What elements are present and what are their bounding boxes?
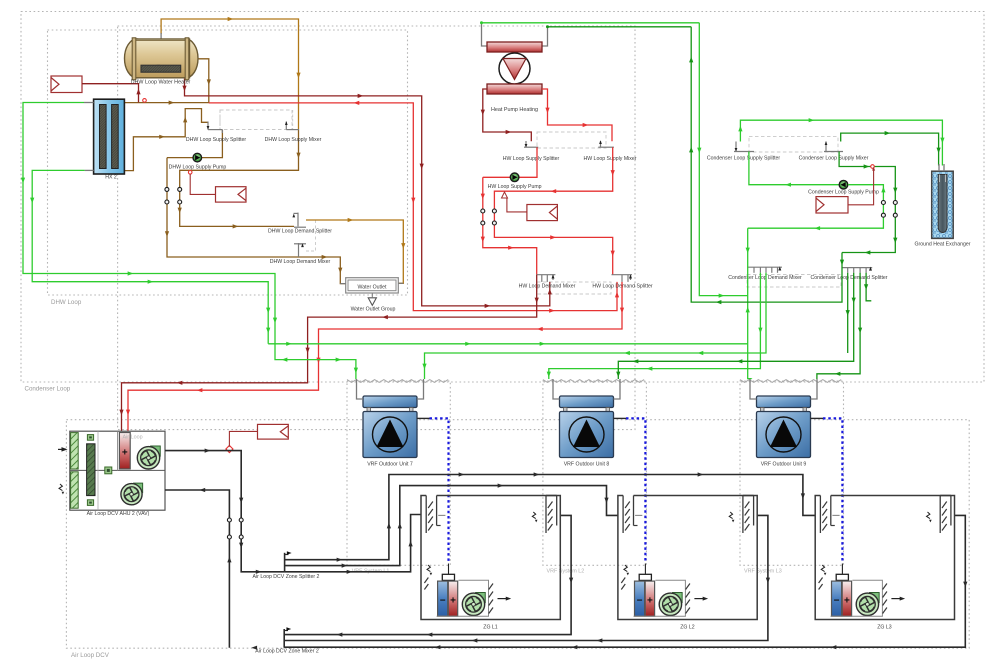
zone unit cap ZG L1 — [448, 564, 450, 575]
zone room box ZG L1 — [421, 496, 560, 620]
ahu return fan — [133, 483, 143, 493]
wire hw demand splitter to ahu — [128, 282, 622, 432]
zone unit squiggle ZG L2 — [624, 565, 627, 572]
zone return duct slot ZG L2 — [742, 496, 744, 534]
ahu heating coil — [119, 433, 130, 469]
arrow cond splitter feed — [738, 126, 742, 132]
dhw pipe adiabatic box — [216, 187, 247, 202]
wire dhw demand splitter branch — [306, 220, 403, 283]
zone unit squiggle ZG L3 — [821, 565, 824, 572]
hw pipe adiabatic box — [527, 205, 558, 221]
arrow hw pump down — [481, 194, 485, 200]
svg-text:HW Loop Demand Mixer: HW Loop Demand Mixer — [519, 283, 576, 289]
wire cond splitter to pump — [749, 152, 839, 185]
zone unit hatches ZG L2 — [621, 578, 625, 584]
arrow hph bottom left — [481, 110, 485, 116]
zone cooling coil ZG L2 — [635, 581, 645, 616]
condenser supply branch dashed box — [749, 137, 838, 152]
hw pipe stub — [507, 198, 527, 212]
svg-text:Water Outlet Group: Water Outlet Group — [351, 307, 396, 313]
dotted overlap zigzag l1 — [347, 380, 448, 383]
ahu node wire to pipe — [229, 431, 257, 446]
vrf9 refrigerant line — [811, 417, 824, 419]
zone discharge arrow ZG L2 — [694, 598, 704, 600]
dhw loop boundary box — [48, 30, 408, 295]
dhw water heater tank — [125, 39, 150, 78]
arrow branch L3 — [337, 558, 343, 562]
zone room box ZG L2 — [618, 496, 757, 620]
ahu supply fan — [150, 446, 160, 456]
wire vrf8 right line — [618, 273, 853, 379]
wire dhw mixer down — [180, 130, 299, 227]
arrow dhw mixer down — [296, 153, 300, 159]
svg-text:+: + — [647, 596, 653, 607]
arrow dhw demand lower — [165, 231, 169, 237]
ahu relief squiggle — [59, 484, 62, 491]
wire hph return green — [699, 23, 747, 296]
zone heating coil ZG L3 — [842, 581, 851, 616]
arrow dark red pair — [182, 86, 186, 92]
zone unit fan ZG L1 — [475, 593, 485, 603]
arrow return L3 — [963, 582, 967, 588]
zone inlet duct slot ZG L3 — [819, 496, 821, 534]
zone unit discharge hatches ZG L1 — [489, 584, 493, 590]
svg-text:Condenser Loop Supply Splitter: Condenser Loop Supply Splitter — [707, 156, 781, 162]
duct branch L1 — [285, 515, 421, 572]
wire hx bottom green west — [32, 170, 268, 343]
vrf outdoor unit 7 — [363, 396, 417, 408]
arrow duct return — [199, 488, 205, 492]
valve circles dhw — [165, 187, 169, 191]
vrf outdoor unit 8 stubs — [553, 379, 560, 399]
zone discharge arrow ZG L3 — [891, 598, 901, 600]
svg-text:DHW Loop Demand Mixer: DHW Loop Demand Mixer — [270, 259, 331, 265]
wire hw demand mixer to ahu — [122, 275, 537, 432]
svg-text:HW Loop Supply Splitter: HW Loop Supply Splitter — [503, 156, 560, 162]
arrow hx top green — [21, 178, 25, 184]
svg-text:−: − — [637, 596, 643, 607]
water outlet box — [346, 278, 399, 293]
ahu damper square top — [87, 435, 93, 441]
wire red box to tank — [82, 84, 139, 103]
vrf system l2 dashed box — [543, 381, 647, 565]
wire dhw tank top — [161, 19, 298, 130]
ghx stubs — [938, 164, 940, 171]
svg-text:Condenser Loop Supply Pump: Condenser Loop Supply Pump — [808, 190, 879, 196]
wire dark red tank to hw demand — [185, 79, 550, 306]
wire dhw pump to demand — [167, 158, 346, 284]
wire cond splitter column — [691, 27, 842, 302]
arrow hph bottom right — [545, 108, 549, 114]
arrow cond t1 — [846, 310, 850, 316]
hw loop supply splitter symbol — [525, 141, 527, 147]
svg-text:−: − — [440, 596, 446, 607]
svg-text:Heat Pump Heating: Heat Pump Heating — [491, 107, 538, 113]
wire hph bottom left — [483, 89, 532, 141]
ahu inner dividers — [97, 431, 99, 510]
ahu oa intake bottom — [71, 472, 79, 508]
dhw loop supply mixer symbol — [285, 122, 287, 130]
water outlet ports — [340, 283, 345, 285]
duct ahu return in — [165, 490, 229, 648]
wire vrf9 left jog — [751, 378, 753, 380]
arrow hph supply — [840, 260, 844, 266]
vrf outdoor unit 8 — [560, 396, 614, 408]
zone inlet tick ZG L1 — [438, 514, 445, 516]
wire hph top left gray — [482, 23, 488, 46]
zone unit hatches ZG L1 — [424, 578, 428, 584]
duct branch L2 — [285, 486, 618, 566]
zone unit squiggle ZG L1 — [427, 565, 430, 572]
ground heat exchanger — [932, 171, 954, 238]
zone cooling coil ZG L3 — [832, 581, 842, 616]
cond valve circles — [881, 201, 885, 205]
arrow branch L2 — [342, 563, 348, 567]
dotted overlap zigzag l2 — [543, 380, 644, 383]
wire hx top green west — [23, 103, 356, 380]
heat pump heating unit — [487, 42, 542, 52]
zone discharge arrow ZG L1 — [498, 598, 508, 600]
svg-text:Ground Heat Exchanger: Ground Heat Exchanger — [915, 242, 971, 248]
svg-text:+: + — [844, 596, 850, 607]
svg-text:ZG L3: ZG L3 — [877, 625, 892, 631]
dhw loop demand splitter symbol — [297, 213, 299, 227]
zone inlet duct slot ZG L2 — [622, 496, 624, 534]
condenser loop demand mixer comb — [747, 266, 782, 268]
air loop dcv zone splitter 2 — [284, 553, 286, 572]
ahu red node diamond — [226, 445, 233, 452]
arrow vrf8 right line — [852, 298, 856, 304]
svg-text:VRF System L2: VRF System L2 — [547, 569, 585, 575]
wire cond splitter t4 stub — [866, 273, 871, 301]
ahu mid damper square — [105, 467, 112, 474]
wire dhw splitter to pump — [167, 130, 222, 158]
red supply box top-left — [51, 76, 82, 93]
red node near tank — [143, 99, 147, 103]
wire cond mixer to ghx — [841, 133, 939, 165]
duct return L1 — [284, 515, 571, 634]
air loop dcv zone mixer 2 — [283, 629, 285, 648]
wire dhw tank right to hx — [124, 59, 208, 103]
arrow hw cross wires — [611, 170, 615, 176]
condenser demand branch dashed box — [747, 275, 841, 288]
vrf7 refrigerant line — [417, 417, 430, 419]
zone unit discharge hatches ZG L3 — [883, 584, 887, 590]
svg-text:Water Outlet: Water Outlet — [358, 285, 387, 291]
svg-text:Condenser Loop: Condenser Loop — [25, 386, 71, 393]
vrf system l3 dashed box — [740, 381, 844, 565]
ahu mid line — [70, 469, 165, 471]
svg-text:Air Loop: Air Loop — [123, 434, 143, 440]
arrow cond node wire — [872, 167, 875, 171]
svg-text:−: − — [834, 596, 840, 607]
arrow cond pump down — [881, 187, 885, 193]
svg-text:HW Loop Supply Mixer: HW Loop Supply Mixer — [583, 156, 636, 162]
wire hph top left green — [482, 22, 700, 24]
hw demand branch dashed box — [537, 282, 611, 294]
svg-text:+: + — [450, 596, 456, 607]
condenser loop supply pump — [839, 180, 848, 189]
zone unit cap ZG L3 — [841, 564, 843, 575]
arrow cond return — [864, 164, 870, 168]
zone unit cap ZG L2 — [644, 564, 646, 575]
arrow dhw tank right — [207, 79, 211, 85]
svg-text:VRF Outdoor Unit 9: VRF Outdoor Unit 9 — [761, 462, 807, 468]
svg-text:HW Loop Supply Pump: HW Loop Supply Pump — [488, 184, 542, 190]
svg-text:DHW Loop Supply Pump: DHW Loop Supply Pump — [169, 164, 227, 170]
arrow hw to ahu bright — [620, 308, 624, 314]
arrow branch L1 — [347, 570, 353, 574]
zone inlet tick ZG L2 — [635, 514, 642, 516]
condenser loop demand splitter comb — [842, 267, 872, 269]
wire vrf7 right line — [425, 273, 767, 379]
svg-text:DHW Loop: DHW Loop — [51, 299, 82, 306]
svg-text:Air Loop DCV AHU 2 (VAV): Air Loop DCV AHU 2 (VAV) — [87, 511, 150, 517]
duct return L2 — [284, 515, 768, 640]
zone inlet duct slot ZG L1 — [425, 496, 427, 534]
dhw node circle — [188, 171, 192, 175]
wire cond mixer outlet down — [839, 152, 895, 253]
ahu oa intake top — [71, 433, 79, 469]
dhw loop demand mixer symbol — [298, 243, 300, 257]
arrow dhw hx to splitter — [159, 135, 165, 139]
svg-text:DHW Loop Supply Mixer: DHW Loop Supply Mixer — [265, 137, 322, 143]
dhw demand branch dashed connector — [315, 220, 317, 251]
zone return squiggle ZG L2 — [729, 512, 732, 519]
dhw loop supply splitter symbol — [207, 122, 209, 130]
svg-text:VRF System L3: VRF System L3 — [744, 569, 782, 575]
hw valve circles — [481, 209, 485, 213]
arrow cond mixer column — [746, 248, 750, 254]
hw loop supply pump — [510, 173, 519, 182]
arrow vrf9 right line — [858, 328, 862, 334]
arrow dhw branch — [348, 218, 354, 222]
duct ahu supply out — [165, 451, 285, 572]
hw loop supply mixer symbol — [600, 141, 602, 147]
green node dots hph — [480, 21, 483, 24]
dhw node to pipe wire — [190, 174, 215, 194]
dhw supply branch dashed box — [220, 110, 292, 130]
svg-text:HX 2: HX 2 — [105, 175, 117, 181]
wire hx bottom long east — [268, 343, 748, 345]
wire bright red tank to hw demand — [209, 103, 617, 311]
cond node wire to pipe — [848, 169, 874, 205]
arrow bright red pair — [354, 101, 360, 105]
svg-text:Condenser Loop Demand Mixer: Condenser Loop Demand Mixer — [728, 275, 802, 281]
svg-text:VRF Outdoor Unit 7: VRF Outdoor Unit 7 — [367, 462, 413, 468]
svg-text:DHW Loop Water Heater: DHW Loop Water Heater — [131, 80, 191, 86]
cond pipe adiabatic box — [816, 197, 848, 213]
arrow return L2 — [766, 578, 770, 584]
green hx top port wire — [84, 102, 94, 104]
dotted hx crossing line — [117, 99, 119, 174]
zone inlet tick ZG L3 — [832, 514, 839, 516]
arrow hph return — [697, 148, 701, 154]
condenser loop supply mixer symbol — [825, 142, 827, 152]
condenser loop supply splitter symbol — [735, 142, 737, 152]
arrow return L1 — [569, 578, 573, 584]
svg-text:+: + — [122, 448, 128, 459]
wire hph bottom right — [542, 89, 612, 141]
duct return L3 — [284, 515, 965, 647]
svg-text:ZG L1: ZG L1 — [483, 625, 498, 631]
ahu damper square bottom — [87, 500, 93, 506]
svg-text:VRF Outdoor Unit 8: VRF Outdoor Unit 8 — [564, 462, 610, 468]
condenser loop boundary box — [21, 12, 984, 383]
zone unit hatches ZG L3 — [819, 578, 823, 584]
wire hph top right gray — [542, 27, 548, 46]
heat exchanger HX 2 — [94, 99, 125, 174]
air loop dcv boundary box — [66, 420, 969, 649]
ahu outer box — [70, 431, 165, 510]
arrow hw to ahu dark — [535, 298, 539, 304]
wire vrf8 left line — [549, 273, 761, 379]
zone cooling coil ZG L1 — [438, 581, 448, 616]
zone return squiggle ZG L1 — [532, 512, 535, 519]
zone unit outline ZG L2 — [634, 580, 686, 616]
zone unit outline ZG L1 — [437, 580, 489, 616]
wire dhw hx bottom to splitter — [124, 109, 207, 171]
zone unit fan ZG L2 — [672, 593, 682, 603]
zone return squiggle ZG L3 — [927, 512, 930, 519]
svg-text:Air Loop DCV Zone Mixer 2: Air Loop DCV Zone Mixer 2 — [255, 649, 319, 655]
zone unit outline ZG L3 — [831, 580, 883, 616]
zone unit fan ZG L3 — [869, 593, 879, 603]
arrow cond t4 — [864, 284, 868, 290]
svg-text:ZG L2: ZG L2 — [680, 625, 695, 631]
wire hph top right green — [548, 26, 692, 28]
ahu pipe adiabatic box — [258, 424, 289, 439]
water outlet group triangle — [368, 298, 376, 306]
wire cond splitter t1 line — [847, 273, 849, 353]
wire hw splitter to pump — [483, 147, 537, 177]
svg-text:Air Loop DCV Zone Splitter 2: Air Loop DCV Zone Splitter 2 — [253, 574, 320, 580]
svg-text:DHW Loop Demand Splitter: DHW Loop Demand Splitter — [268, 228, 332, 234]
dotted overlap zigzag l3 — [740, 380, 841, 383]
hw supply branch dashed box — [537, 132, 606, 148]
cond node circle — [871, 165, 875, 169]
hw node triangle — [502, 192, 508, 198]
vrf outdoor unit 7 stubs — [357, 379, 364, 399]
svg-text:Condenser Loop Demand Splitter: Condenser Loop Demand Splitter — [811, 275, 888, 281]
hw loop demand splitter comb — [612, 274, 633, 276]
duct branch L3 — [285, 475, 816, 560]
arrow vrf7 right line — [698, 351, 704, 355]
vrf8 refrigerant line — [614, 417, 627, 419]
svg-text:Air Loop DCV: Air Loop DCV — [71, 652, 110, 659]
arrow vrf8 left line — [758, 328, 762, 334]
arrow duct supply — [205, 448, 211, 452]
wire hw pump down to demand mixer — [483, 177, 537, 274]
zone heating coil ZG L1 — [448, 581, 457, 616]
ahu heat recovery bar — [87, 444, 95, 496]
vrf outdoor unit 9 — [757, 396, 811, 408]
dhw loop supply pump — [193, 153, 202, 162]
arrow red box wire — [136, 89, 140, 95]
zone room box ZG L3 — [815, 496, 954, 620]
hw loop boundary box — [118, 26, 635, 430]
svg-text:DHW Loop Supply Splitter: DHW Loop Supply Splitter — [186, 137, 247, 143]
wire cond splitter feed — [740, 120, 942, 165]
wire hw supply mixer to demand splitter — [494, 147, 612, 275]
duct valve circles — [227, 518, 231, 522]
vrf outdoor unit 9 stubs — [750, 379, 757, 399]
arrow hx bottom green — [30, 198, 34, 204]
zone return duct slot ZG L1 — [545, 496, 547, 534]
ahu oa arrow — [61, 447, 67, 451]
vrf system l1 dashed box — [347, 381, 450, 565]
arrow cond mixer ghx — [885, 131, 891, 135]
arrow cond pump line — [785, 183, 791, 187]
wire cond mixer column — [748, 228, 752, 378]
svg-text:Condenser Loop Supply Mixer: Condenser Loop Supply Mixer — [799, 156, 869, 162]
zone unit discharge hatches ZG L2 — [686, 584, 690, 590]
wire vrf9 right line — [817, 273, 860, 379]
hw loop demand mixer comb — [537, 274, 556, 276]
wire cond pump down — [748, 185, 884, 229]
zone return duct slot ZG L3 — [939, 496, 941, 534]
arrow dhw tank top — [228, 17, 234, 21]
zone heating coil ZG L2 — [645, 581, 654, 616]
